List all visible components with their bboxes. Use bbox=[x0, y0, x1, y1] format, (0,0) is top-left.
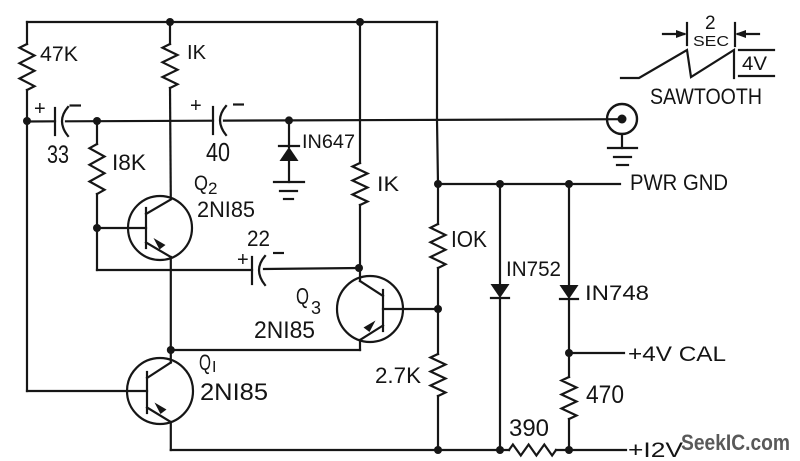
resistor 2.7K bbox=[431, 354, 446, 396]
wire 470 bottom bbox=[568, 419, 570, 450]
svg-text:I: I bbox=[212, 359, 216, 376]
label Q1 bbox=[199, 350, 216, 376]
node 18K top bbox=[93, 117, 101, 125]
svg-text:+: + bbox=[190, 95, 202, 117]
svg-text:2.7K: 2.7K bbox=[375, 363, 421, 388]
node bottom 2.7K bbox=[434, 446, 442, 454]
node bottom 470 bbox=[565, 446, 573, 454]
capacitor 40 bbox=[213, 106, 226, 135]
wire Q1 base bbox=[27, 390, 147, 392]
wire left rail upper bbox=[26, 22, 28, 44]
wire top rail bbox=[27, 21, 437, 23]
node +4V CAL bbox=[565, 349, 573, 357]
svg-text:+I2V: +I2V bbox=[628, 439, 683, 461]
ground IN647 bbox=[274, 182, 304, 199]
wire Q2 base bbox=[97, 227, 146, 229]
label cap33 minus bbox=[70, 104, 82, 106]
wire left rail lower bbox=[26, 121, 28, 391]
wire 47K bottom to cap row bbox=[26, 90, 28, 121]
svg-text:4V: 4V bbox=[742, 54, 767, 75]
wire Q3 collector stub bbox=[359, 268, 361, 281]
wire bottom rail left bbox=[171, 449, 509, 451]
node Q3 base bbox=[434, 305, 442, 313]
node cap22 right bbox=[355, 264, 363, 272]
node Q2 base bbox=[93, 224, 101, 232]
sawtooth period tick left bbox=[686, 23, 688, 45]
wire cap40 to BNC bbox=[224, 119, 622, 120]
wire Q3 collector rail bbox=[359, 22, 361, 163]
svg-text:2NI85: 2NI85 bbox=[254, 317, 315, 344]
wire 10K top stub bbox=[437, 184, 439, 224]
svg-text:2: 2 bbox=[705, 13, 716, 34]
transistor Q3 bbox=[337, 276, 403, 342]
svg-text:+4V CAL: +4V CAL bbox=[628, 343, 726, 366]
node top Q3 rail bbox=[356, 18, 364, 26]
svg-text:Q: Q bbox=[296, 283, 309, 309]
wire base node down to cap22 row bbox=[96, 228, 98, 270]
svg-text:IN647: IN647 bbox=[302, 132, 355, 153]
wire 1K bottom to Q2 collector bbox=[169, 88, 172, 199]
label Q3 bbox=[296, 283, 321, 318]
wire +4V CAL tap bbox=[569, 352, 624, 354]
transistor Q1 bbox=[127, 358, 193, 424]
svg-text:IOK: IOK bbox=[451, 226, 488, 252]
svg-text:+: + bbox=[34, 98, 46, 120]
wire 18K top stub bbox=[96, 121, 98, 144]
4V level line bottom bbox=[739, 75, 774, 77]
wire PWR GND rail bbox=[438, 183, 620, 185]
wire 2.7K top stub bbox=[437, 309, 439, 354]
node PWR GND IN752 bbox=[496, 180, 504, 188]
wire Q1 collector node to Q3 emitter bbox=[171, 349, 360, 351]
svg-text:47K: 47K bbox=[40, 43, 78, 66]
capacitor 33 bbox=[55, 107, 68, 136]
wire cap row left bbox=[27, 120, 55, 122]
svg-text:SAWTOOTH: SAWTOOTH bbox=[650, 84, 762, 109]
connector BNC output bbox=[607, 104, 637, 148]
resistor 1K (left) bbox=[163, 44, 178, 88]
svg-text:IK: IK bbox=[187, 42, 207, 64]
label cap40 minus bbox=[233, 103, 244, 105]
svg-text:2: 2 bbox=[208, 179, 217, 198]
wire 1K right bottom to node bbox=[359, 205, 361, 268]
resistor 1K (right) bbox=[353, 163, 368, 205]
zener IN748 bbox=[560, 184, 579, 353]
wire Q3 base bbox=[383, 308, 438, 310]
wire cap22 row left bbox=[97, 269, 252, 271]
svg-text:33: 33 bbox=[47, 141, 69, 169]
wire 18K bottom to Q2 base node bbox=[96, 194, 98, 228]
svg-text:40: 40 bbox=[206, 137, 230, 167]
svg-text:2NI85: 2NI85 bbox=[197, 197, 255, 222]
svg-text:+: + bbox=[237, 249, 249, 271]
wire cap22 to Q3 collector node bbox=[264, 268, 359, 269]
node cap row left bbox=[23, 117, 31, 125]
sawtooth period tick right bbox=[734, 23, 736, 46]
zener IN752 bbox=[491, 184, 510, 450]
wire 1K top branch bbox=[169, 22, 171, 44]
svg-text:3: 3 bbox=[311, 298, 321, 318]
label cap22 minus bbox=[273, 252, 284, 254]
svg-text:PWR GND: PWR GND bbox=[630, 170, 728, 195]
wire Q2 emitter down to Q1 collector node bbox=[170, 257, 172, 350]
resistor 390 bbox=[509, 445, 556, 456]
wire Q3 emitter stub bbox=[359, 340, 361, 350]
wire 10K bottom to Q3 base node bbox=[437, 268, 439, 309]
resistor 18K bbox=[90, 144, 105, 194]
svg-text:2NI85: 2NI85 bbox=[200, 379, 268, 406]
wire Q1 collector up bbox=[170, 350, 172, 363]
4V level line top bbox=[739, 49, 774, 51]
node top 1K bbox=[166, 18, 174, 26]
wire 470 top stub bbox=[568, 353, 570, 377]
resistor 10K bbox=[431, 224, 446, 268]
capacitor 22 bbox=[252, 256, 265, 285]
node Q1 collector bbox=[167, 346, 175, 354]
svg-text:22: 22 bbox=[247, 226, 270, 251]
node bottom IN752 bbox=[496, 446, 504, 454]
node PWR GND IN748 bbox=[565, 180, 573, 188]
wire Q1 emitter down bbox=[170, 422, 172, 450]
dimension arrow left bbox=[663, 30, 687, 38]
svg-text:390: 390 bbox=[509, 415, 549, 442]
label Q2 bbox=[194, 172, 217, 198]
svg-text:IK: IK bbox=[377, 173, 399, 196]
svg-text:IN752: IN752 bbox=[506, 258, 561, 281]
ground BNC bbox=[608, 148, 637, 165]
diode IN647 body bbox=[279, 120, 299, 182]
svg-text:IN748: IN748 bbox=[585, 282, 649, 305]
node IN647 top bbox=[285, 116, 293, 124]
transistor Q2 bbox=[128, 196, 192, 260]
resistor 47K bbox=[20, 44, 35, 90]
svg-text:470: 470 bbox=[586, 381, 624, 409]
svg-text:Q: Q bbox=[194, 172, 208, 195]
svg-text:SeekIC.com: SeekIC.com bbox=[681, 430, 790, 455]
wire 2.7K bottom bbox=[437, 396, 439, 450]
sawtooth waveform bbox=[621, 50, 734, 78]
svg-text:Q: Q bbox=[199, 350, 211, 375]
node PWR GND left bbox=[434, 180, 442, 188]
svg-text:SEC: SEC bbox=[693, 33, 729, 50]
wire cap33 to 18K node bbox=[66, 120, 213, 123]
dimension arrow right bbox=[735, 30, 759, 38]
resistor 470 bbox=[562, 377, 577, 419]
wire bottom rail right bbox=[556, 449, 626, 451]
wire right rail top corner bbox=[437, 22, 438, 184]
svg-text:I8K: I8K bbox=[112, 150, 146, 175]
